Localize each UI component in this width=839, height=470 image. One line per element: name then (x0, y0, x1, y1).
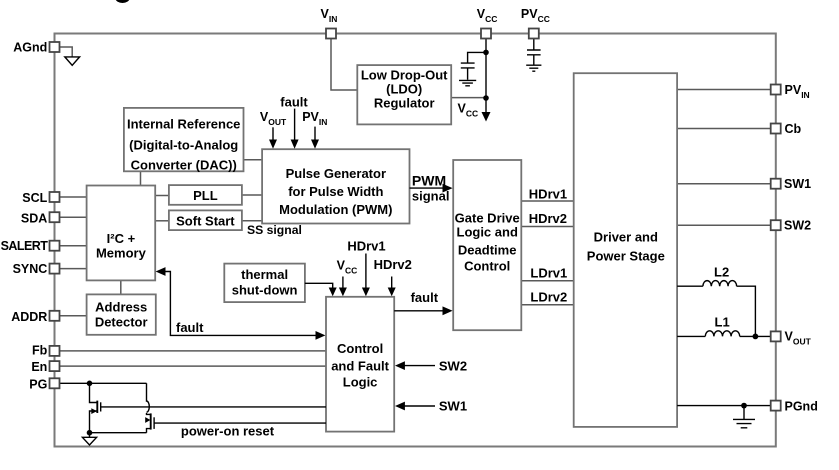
wire PG net (60, 382, 147, 384)
svg-text:SW2: SW2 (439, 358, 467, 373)
capacitor C2 PVCC (527, 50, 541, 65)
svg-text:SW2: SW2 (784, 219, 811, 233)
capacitor C1 VCC (461, 63, 475, 80)
svg-text:Regulator: Regulator (374, 96, 435, 111)
wire AGnd stub (60, 47, 73, 57)
arrow HDrv1 into Control (365, 254, 367, 289)
svg-text:Gate Drive: Gate Drive (455, 211, 520, 226)
wire LDrv1 (521, 280, 573, 282)
svg-text:Cb: Cb (785, 122, 802, 136)
block PLL (169, 185, 242, 205)
svg-text:Fb: Fb (32, 343, 48, 357)
block Gate Drive Logic and Deadtime Control (453, 160, 521, 330)
wire Driver to PGnd pin (677, 405, 771, 407)
pin VIN (326, 29, 336, 39)
svg-text:L1: L1 (715, 315, 730, 330)
wire LDrv2 (521, 304, 573, 306)
wire VIN drop to LDO (331, 39, 357, 90)
arrow VCC down (482, 112, 491, 122)
wire SDA to I2C (60, 216, 87, 218)
svg-text:L2: L2 (714, 265, 729, 280)
svg-text:Converter (DAC)): Converter (DAC)) (131, 158, 237, 173)
block Pulse Generator PWM (262, 149, 409, 223)
svg-text:signal: signal (412, 189, 450, 204)
arrow PVIN into PulseGen (314, 127, 316, 140)
pin SALERT (50, 241, 60, 251)
svg-text:Internal Reference: Internal Reference (127, 117, 240, 132)
arrow VCC into Control (342, 277, 344, 289)
svg-text:Low Drop-Out: Low Drop-Out (361, 68, 448, 83)
svg-text:fault: fault (411, 290, 439, 305)
svg-text:Control: Control (337, 341, 383, 356)
svg-text:SW1: SW1 (784, 177, 811, 191)
node VCC junction lower (483, 95, 489, 101)
arrow fault Control to GateDrive (394, 310, 443, 312)
transistor Q2 (147, 413, 151, 433)
svg-text:PLL: PLL (193, 188, 218, 203)
pin SW1 (771, 179, 781, 189)
svg-text:ADDR: ADDR (11, 310, 47, 324)
svg-text:Modulation (PWM): Modulation (PWM) (279, 202, 392, 217)
svg-text:for Pulse Width: for Pulse Width (288, 184, 383, 199)
wire Soft Start to PulseGen SS signal (242, 220, 262, 222)
inductor L2 (677, 286, 755, 336)
pin Cb (771, 124, 781, 134)
svg-text:and Fault: and Fault (331, 359, 389, 374)
wire I2C to Address Detector (120, 280, 122, 294)
svg-text:AGnd: AGnd (13, 41, 47, 55)
svg-text:PWM: PWM (412, 172, 446, 188)
svg-text:Power Stage: Power Stage (587, 248, 665, 263)
wire PVCC cap drop (533, 39, 535, 50)
wire SCL to I2C (60, 196, 87, 198)
wire HDrv2 (521, 226, 573, 228)
arrow SW1 into Control (404, 405, 435, 407)
svg-text:(LDO): (LDO) (386, 82, 422, 97)
svg-text:fault: fault (176, 320, 204, 335)
svg-text:En: En (31, 360, 47, 374)
block thermal shut-down (224, 264, 305, 303)
wire Driver to SW1 pin (677, 183, 771, 185)
block Address Detector (87, 294, 156, 334)
svg-text:HDrv1: HDrv1 (347, 238, 385, 253)
ground C1 (459, 80, 476, 85)
svg-text:Memory: Memory (96, 246, 147, 261)
block Soft Start (169, 210, 242, 230)
wire Driver to SW2 pin (677, 224, 771, 226)
svg-text:thermal: thermal (241, 267, 288, 282)
arrow fault into PulseGen (294, 109, 296, 140)
wire PG vertical with crossing bump (147, 383, 150, 412)
svg-text:(Digital-to-Analog: (Digital-to-Analog (129, 138, 238, 153)
block LDO regulator (357, 65, 451, 124)
arrow SW2 into Control (404, 365, 435, 367)
wire VCC pin drop (485, 39, 487, 113)
wire ADDR to Address Detector (60, 315, 87, 317)
ground AGnd triangle (65, 57, 80, 65)
wire I2C to PLL (155, 195, 169, 197)
pin SCL (50, 192, 60, 202)
pin PVCC (529, 29, 539, 39)
svg-text:power-on reset: power-on reset (181, 424, 275, 439)
svg-text:LDrv2: LDrv2 (530, 290, 567, 305)
svg-text:Logic: Logic (343, 375, 378, 390)
svg-text:SCL: SCL (22, 191, 47, 205)
pin SW2 (771, 220, 781, 230)
pin ADDR (50, 311, 60, 321)
wire Q1 gate line (101, 406, 326, 408)
wire SALERT to I2C (60, 245, 87, 247)
pin PVIN (771, 85, 781, 95)
ground PGnd (733, 406, 755, 428)
wire Q2 gate power-on reset line (154, 422, 326, 424)
wire En to Control (60, 365, 327, 367)
svg-text:shut-down: shut-down (232, 283, 298, 298)
wire HDrv1 (521, 200, 573, 202)
transistor Q1 (90, 383, 98, 432)
pin Fb (50, 346, 60, 356)
wire Driver to Cb pin (677, 128, 771, 130)
pin En (50, 361, 60, 371)
wire thermal to Control arrow (305, 283, 333, 288)
wire Driver to PVIN pin (677, 89, 771, 91)
pin VOUT (771, 331, 781, 341)
svg-text:HDrv1: HDrv1 (529, 186, 567, 201)
block Control and Fault Logic (326, 297, 394, 432)
node source rail junction (87, 430, 93, 436)
wire VCC cap branch (468, 52, 486, 62)
wire IntRef to I2C (140, 171, 142, 185)
svg-text:SYNC: SYNC (13, 262, 48, 276)
svg-text:LDrv1: LDrv1 (530, 266, 567, 281)
pin SDA (50, 212, 60, 222)
svg-text:Address: Address (95, 300, 147, 315)
pin SYNC (50, 264, 60, 274)
arrow PWM signal to GateDrive (410, 187, 444, 189)
svg-text:SDA: SDA (21, 211, 47, 225)
wire IntRef to PulseGen (244, 159, 263, 161)
svg-text:SALERT: SALERT (1, 239, 49, 253)
svg-text:Driver and: Driver and (594, 229, 658, 244)
svg-text:Logic and: Logic and (457, 225, 518, 240)
wire source rail (90, 432, 147, 434)
svg-text:PGnd: PGnd (785, 400, 818, 414)
wire LDO output to VCC node (451, 97, 486, 99)
block Driver and Power Stage (574, 73, 677, 427)
cropped title descender blob (116, 0, 130, 3)
svg-text:Deadtime: Deadtime (458, 242, 517, 257)
node VOUT junction (753, 334, 759, 340)
svg-text:PG: PG (29, 377, 47, 391)
svg-text:SW1: SW1 (439, 399, 467, 414)
svg-text:Detector: Detector (95, 315, 148, 330)
block Internal Reference DAC (124, 108, 244, 171)
pin VCC (481, 29, 491, 39)
svg-text:HDrv2: HDrv2 (529, 211, 567, 226)
wire I2C to Soft Start (155, 220, 169, 222)
pin PG (50, 378, 60, 388)
chip outer border (55, 34, 776, 447)
node PGnd junction (741, 403, 747, 409)
wire PLL to PulseGen (242, 194, 262, 196)
ground transistor rail (89, 433, 91, 438)
svg-text:SS signal: SS signal (247, 223, 302, 237)
node PG junction (87, 381, 93, 387)
wire Fb to Control (60, 350, 327, 352)
inductor L1 (677, 335, 771, 337)
svg-text:Soft Start: Soft Start (176, 214, 235, 229)
svg-text:Control: Control (464, 259, 510, 274)
svg-text:Pulse Generator: Pulse Generator (286, 166, 386, 181)
arrow HDrv2 into Control (391, 277, 393, 289)
ground C2 (526, 65, 541, 71)
pin PGnd (771, 401, 781, 411)
arrow VOUT into PulseGen (272, 127, 274, 140)
svg-text:I²C +: I²C + (107, 231, 136, 246)
block I2C + Memory (87, 186, 156, 281)
svg-text:fault: fault (280, 94, 308, 109)
arrow fault to I2C with elbow (164, 272, 316, 336)
node VCC junction upper (483, 50, 489, 56)
pin AGnd (50, 42, 60, 52)
wire SYNC to I2C (60, 268, 87, 270)
svg-text:HDrv2: HDrv2 (374, 257, 412, 272)
